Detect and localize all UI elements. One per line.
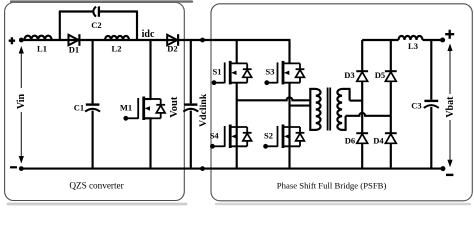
wire: primary top link [309,88,316,90]
svg-text:D1: D1 [69,45,79,55]
svg-text:D4: D4 [373,136,384,146]
wire: secondary top vertical [349,89,351,101]
svg-text:L3: L3 [408,41,418,51]
svg-text:Vout: Vout [169,96,180,118]
capacitor Vdclink [183,105,198,112]
label + (input) [9,37,15,44]
diode D2 [167,34,178,46]
QZS converter box [5,3,185,201]
M1 drain tap [144,98,152,100]
svg-text:C1: C1 [74,103,84,113]
svg-text:idc: idc [142,29,155,40]
transistor S1 [212,40,252,85]
M1 source wire down [149,118,151,168]
M1 gate bar [137,98,139,119]
wire: secondary bottom link [342,129,347,131]
transformer primary side vertical [309,88,311,131]
svg-text:D6: D6 [345,136,355,146]
wire: C2 branch right vertical [136,12,138,41]
svg-text:Phase Shift Full Bridge (PSFB): Phase Shift Full Bridge (PSFB) [277,181,387,191]
diode D3 [356,40,368,101]
wire: primary B wire [290,105,311,107]
wire: C1 branch vertical bottom [92,111,94,169]
M1 gate lead [126,117,139,119]
svg-text:L1: L1 [37,44,47,54]
transistor S4 [210,125,252,169]
label + (output) [445,30,454,39]
inductor L1 [24,36,51,40]
svg-text:S2: S2 [264,131,273,141]
svg-text:L2: L2 [112,44,122,54]
label - (input) [10,166,17,168]
wire: C2 top right segment [99,10,138,12]
label - (output) [446,174,453,176]
capacitor C2 (curved plate left, straight plate right) [93,6,99,16]
svg-text:D2: D2 [167,44,177,54]
transformer secondary winding [337,89,342,130]
diode D4 [385,116,397,169]
wire: C1 branch vertical top [92,40,94,103]
wire: Vdclink capacitor branch bottom [190,111,192,169]
transistor S2 [263,125,304,169]
M1 source tap [144,117,152,119]
wire: secondary top output to D3/D6 node [350,100,363,102]
svg-text:Vbat: Vbat [445,96,456,118]
PSFB box [211,4,472,201]
transistor S3 [264,40,304,85]
wire: bottom rail (full width) [21,168,443,170]
M1 gate terminal dot [123,116,128,121]
svg-text:C3: C3 [411,100,421,110]
svg-text:QZS converter: QZS converter [69,181,123,191]
node: dc link bottom dot [200,166,205,171]
wire: right bridge leg (S3 source to S2 drain) [288,83,290,127]
diode D5 [385,40,397,116]
M1 channel bar [142,97,145,121]
inductor L3 [399,36,423,40]
wire: primary A wire with hop over right leg [237,97,311,100]
wire: C3 branch top [430,40,432,100]
node: input - terminal dot [19,166,24,171]
svg-text:D3: D3 [344,70,354,80]
capacitor C3 [424,101,439,108]
Vin arrow (double headed) [19,46,24,164]
M1 body diode [160,99,162,105]
wire: top rail to output + [423,39,443,41]
shadow under right box [216,203,470,205]
wire: C3 branch bottom [430,107,432,169]
svg-text:S1: S1 [213,67,222,77]
wire: primary bottom link [309,129,316,131]
wire: Vdclink capacitor branch top [190,40,192,103]
transistor M1 (MOSFET with body diode) [123,40,165,169]
svg-text:S4: S4 [210,131,220,141]
node: output + dot [440,38,445,43]
Vbat arrow (double headed) [447,44,452,168]
capacitor C1 [85,105,100,112]
diode D1 [69,34,80,46]
dark top band of QZS box [11,0,192,2]
wire: main top rail (input to S1 drain) [21,39,290,41]
wire: C2 top left segment [59,10,93,12]
wire: rectifier top rail [362,39,398,41]
svg-text:S3: S3 [266,67,275,77]
svg-text:C2: C2 [91,20,101,30]
wire: secondary bottom vertical [345,116,347,130]
transformer core lines [327,88,329,131]
svg-text:Vdclink: Vdclink [198,93,209,127]
wire: C2 branch left vertical [59,12,61,41]
svg-text:Vin: Vin [16,93,27,109]
M1 channel arrow [145,106,150,110]
svg-text:D5: D5 [375,70,385,80]
wire: secondary top link [342,88,351,90]
wire: left bridge leg (S1 source to S4 drain) [236,83,238,127]
node: dc link top dot [200,38,205,43]
M1 drain wire up [149,40,151,99]
transformer primary winding [316,89,321,130]
wire: secondary bottom output to D5/D4 node with hop [346,113,391,116]
node: input + terminal dot [19,38,24,43]
inductor L2 [105,36,129,40]
svg-text:M1: M1 [120,103,132,113]
shadow under left box [8,203,186,206]
diode D6 [356,101,368,169]
node: output - dot [440,166,445,171]
